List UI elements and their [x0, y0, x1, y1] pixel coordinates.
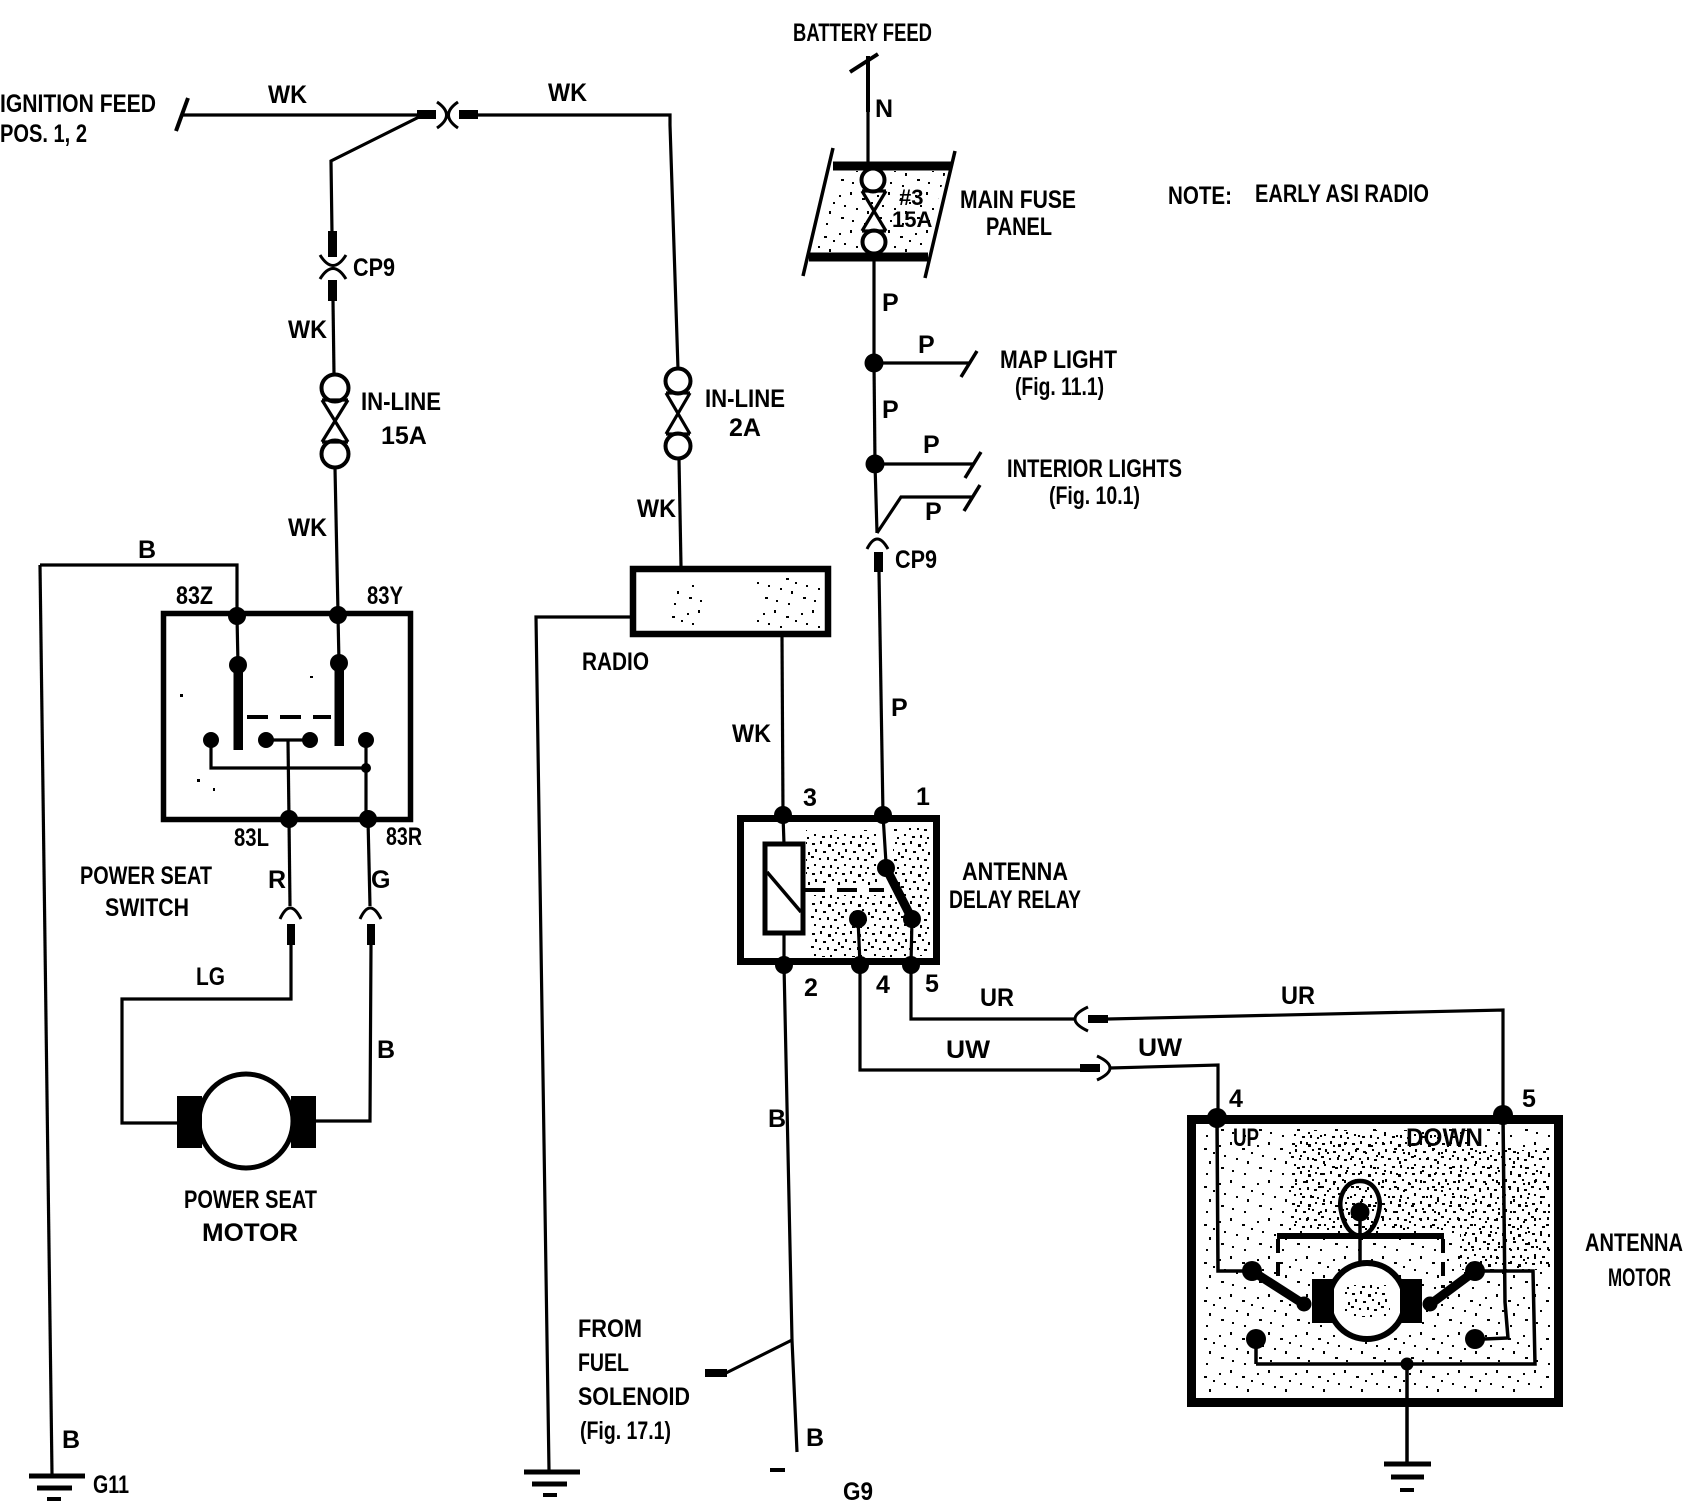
label FROM FUEL SOLENOID (Fig. 17.1): [578, 1315, 690, 1445]
wire right arm to common rail: [1256, 1271, 1535, 1364]
svg-text:B: B: [377, 1036, 395, 1064]
svg-text:MAP LIGHT: MAP LIGHT: [1000, 346, 1117, 374]
wire UW connector to antenna motor pin 4: [1110, 1065, 1218, 1115]
svg-text:83R: 83R: [386, 823, 422, 851]
svg-text:UR: UR: [1281, 982, 1315, 1010]
wire contact bar to terminal 83L: [288, 741, 289, 819]
relay switch arm: [849, 815, 921, 964]
switch contact row (4 contacts): [203, 732, 374, 748]
svg-text:4: 4: [1229, 1085, 1243, 1113]
node motor pin 4: [1207, 1108, 1227, 1128]
svg-text:UP: UP: [1233, 1124, 1259, 1152]
node up lower contact: [1246, 1329, 1266, 1364]
node terminal 83R: [359, 810, 422, 851]
radio box: [633, 569, 828, 634]
fuse #3 15A inside panel: [862, 169, 887, 254]
svg-text:P: P: [923, 431, 940, 459]
label MAIN FUSE PANEL: [960, 186, 1076, 241]
label UW (left): [946, 1036, 990, 1064]
thermal teardrop with contact: [1340, 1181, 1379, 1263]
connector UW (bar-arc): [1080, 1056, 1110, 1080]
label POWER SEAT SWITCH: [80, 862, 212, 922]
label CP9: [353, 254, 395, 282]
relay dashed link: [805, 888, 884, 892]
svg-text:ANTENNA: ANTENNA: [1585, 1229, 1683, 1257]
label ANTENNA MOTOR: [1585, 1229, 1683, 1292]
svg-text:G9: G9: [843, 1478, 873, 1504]
label UR (right): [1281, 982, 1315, 1010]
ground G11: [29, 1471, 129, 1499]
antenna delay relay box: [741, 819, 937, 962]
wire diagonal connector to CP9 branch: [331, 117, 419, 233]
svg-text:IN-LINE: IN-LINE: [361, 388, 441, 416]
svg-text:PANEL: PANEL: [986, 213, 1052, 241]
label G: [371, 866, 390, 894]
svg-text:POWER SEAT: POWER SEAT: [184, 1186, 317, 1214]
svg-text:EARLY ASI RADIO: EARLY ASI RADIO: [1255, 180, 1429, 208]
connector CP9 (main P wire, arc-pin): [867, 539, 888, 572]
label 5 (motor pin): [1522, 1085, 1536, 1113]
antenna motor box: [1192, 1120, 1559, 1403]
label P (interior lights branch): [923, 431, 940, 459]
switch blade right (83Y): [330, 615, 348, 746]
svg-text:(Fig. 17.1): (Fig. 17.1): [580, 1417, 671, 1445]
svg-text:WK: WK: [268, 81, 307, 109]
label WK (right top wire): [548, 79, 587, 107]
label B (bottom left): [62, 1426, 80, 1454]
node relay pin 4: [851, 956, 890, 999]
wire branch to fuel solenoid: [705, 1340, 792, 1377]
label UW (right): [1138, 1034, 1182, 1062]
node BATTERY FEED label: [793, 19, 932, 47]
label CP9 (main): [895, 546, 937, 574]
svg-text:2: 2: [804, 974, 818, 1002]
label WK (above radio): [637, 495, 676, 523]
label WK (above switch): [288, 514, 327, 542]
svg-text:B: B: [138, 536, 156, 564]
svg-text:FUEL: FUEL: [578, 1349, 629, 1377]
label B (top left): [138, 536, 156, 564]
svg-text:P: P: [882, 396, 899, 424]
wire motor pin 4 to up contact: [1217, 1118, 1247, 1271]
label INTERIOR LIGHTS (Fig. 10.1): [1007, 455, 1182, 510]
svg-text:15A: 15A: [381, 422, 427, 450]
wire LG to power seat motor: [122, 945, 291, 1123]
label NOTE: EARLY ASI RADIO: [1168, 180, 1429, 210]
svg-text:WK: WK: [637, 495, 676, 523]
node relay pin 2: [775, 956, 818, 1002]
scan speckles in power seat switch: [180, 676, 313, 791]
node terminal 83Y: [329, 582, 403, 624]
wire WK 2A fuse to radio: [679, 459, 681, 566]
svg-text:WK: WK: [548, 79, 587, 107]
label ANTENNA DELAY RELAY: [949, 858, 1081, 914]
svg-text:MOTOR: MOTOR: [1608, 1264, 1671, 1292]
svg-text:G: G: [371, 866, 390, 894]
switch dashed coupling bar: [247, 715, 331, 719]
wire B to power seat motor: [314, 945, 371, 1121]
ground (antenna motor): [1384, 1464, 1431, 1490]
svg-text:POS. 1, 2: POS. 1, 2: [0, 120, 87, 148]
svg-text:MOTOR: MOTOR: [202, 1219, 298, 1247]
svg-text:SWITCH: SWITCH: [105, 894, 189, 922]
label LG: [196, 963, 225, 991]
label B (right of motor): [377, 1036, 395, 1064]
wire P down to CP9: [875, 464, 877, 533]
bracket with dashed sides: [1277, 1236, 1444, 1288]
antenna motor armature: [1312, 1263, 1430, 1339]
label N: [875, 95, 893, 123]
svg-text:(Fig. 10.1): (Fig. 10.1): [1049, 482, 1140, 510]
connector R (arc-pin): [280, 908, 301, 945]
switch blade left (83Z): [229, 616, 247, 750]
node terminal 83Z: [176, 582, 246, 625]
svg-text:P: P: [918, 331, 935, 359]
node junction interior lights: [866, 455, 885, 474]
label P (between junctions): [882, 396, 899, 424]
wire B left feed to terminal 83Z: [40, 565, 237, 613]
svg-text:CP9: CP9: [895, 546, 937, 574]
wire 83L to connector R: [289, 819, 290, 906]
svg-text:IGNITION FEED: IGNITION FEED: [0, 90, 156, 118]
svg-text:RADIO: RADIO: [582, 648, 649, 676]
wire UW relay pin 4 to connector: [860, 965, 1080, 1070]
label UR (left): [980, 984, 1014, 1012]
label IN-LINE 2A: [705, 385, 785, 442]
node relay pin 5: [902, 956, 939, 998]
wire UR connector to antenna motor pin 5: [1108, 1010, 1503, 1115]
svg-text:B: B: [806, 1424, 824, 1452]
wire P CP9 to relay pin 1: [879, 572, 883, 815]
wire UR relay pin 5 to connector: [911, 965, 1076, 1019]
svg-text:UR: UR: [980, 984, 1014, 1012]
node motor pin 5: [1493, 1105, 1513, 1125]
svg-text:P: P: [882, 289, 899, 317]
wire P to interior lights junction: [874, 363, 875, 464]
wire P fuse panel to map light junction: [872, 261, 875, 363]
label #3 15A: [892, 185, 932, 232]
svg-text:B: B: [768, 1105, 786, 1133]
wire B radio to ground (long left drop): [536, 617, 633, 1470]
svg-text:POWER SEAT: POWER SEAT: [80, 862, 212, 890]
connector CP9 (left branch): [320, 231, 346, 301]
node IGNITION FEED POS. 1, 2 label: [0, 90, 156, 148]
wire N battery feed to fuse panel: [866, 70, 869, 163]
connector UR (arc-bar): [1075, 1007, 1108, 1031]
svg-text:WK: WK: [732, 720, 771, 748]
label P (map light branch): [918, 331, 935, 359]
label P (below fuse panel): [882, 289, 899, 317]
node ground junction: [1401, 1358, 1414, 1371]
wire B left vertical to ground G11: [40, 565, 52, 1474]
main fuse panel (parallelogram): [803, 148, 955, 278]
svg-text:FROM: FROM: [578, 1315, 642, 1343]
svg-text:WK: WK: [288, 514, 327, 542]
wire WK ignition feed to connector: [182, 113, 417, 116]
label DOWN: [1406, 1124, 1483, 1152]
fuse IN-LINE 2A: [666, 369, 691, 459]
wire motor pin 5 to down contact: [1484, 1115, 1508, 1339]
battery feed terminal slash: [850, 54, 878, 112]
node relay pin 3: [774, 784, 817, 824]
label B (relay pin 2 wire): [768, 1105, 786, 1133]
ignition feed terminal slash: [176, 98, 188, 131]
svg-text:P: P: [891, 694, 908, 722]
wire left contact to right contact crossover: [211, 740, 371, 819]
svg-text:MAIN FUSE: MAIN FUSE: [960, 186, 1076, 214]
power seat switch box: [164, 614, 411, 820]
relay coil: [765, 815, 803, 965]
wire WK CP9 to in-line 15A fuse: [333, 301, 334, 374]
label R: [268, 866, 286, 894]
svg-text:P: P: [925, 498, 942, 526]
wire 83R to connector G: [368, 819, 370, 906]
wire B relay pin 2 down: [784, 965, 797, 1452]
svg-text:INTERIOR LIGHTS: INTERIOR LIGHTS: [1007, 455, 1182, 483]
node down lower contact: [1465, 1329, 1485, 1349]
svg-text:UW: UW: [1138, 1034, 1182, 1062]
svg-text:N: N: [875, 95, 893, 123]
svg-text:NOTE:: NOTE:: [1168, 182, 1232, 210]
node terminal 83L: [234, 810, 298, 852]
label POWER SEAT MOTOR: [184, 1186, 317, 1247]
svg-text:83Z: 83Z: [176, 582, 213, 610]
label RADIO: [582, 648, 649, 676]
svg-text:R: R: [268, 866, 286, 894]
label IN-LINE 15A: [361, 388, 441, 450]
node relay pin 1: [874, 783, 930, 824]
wire branch third (diagonal): [877, 485, 980, 533]
svg-text:SOLENOID: SOLENOID: [578, 1383, 690, 1411]
label WK (above 15A fuse): [288, 316, 327, 344]
connector inline WK (bar-arcs-bar): [417, 102, 478, 128]
wire WK connector to in-line 2A fuse: [478, 115, 678, 369]
svg-text:UW: UW: [946, 1036, 990, 1064]
svg-text:15A: 15A: [892, 207, 932, 232]
label UP: [1233, 1124, 1259, 1152]
label B (above G9): [806, 1424, 824, 1452]
svg-text:1: 1: [916, 783, 930, 811]
wire WK radio to relay pin 3: [782, 637, 783, 815]
wire branch to interior lights: [875, 452, 981, 478]
svg-text:4: 4: [876, 971, 890, 999]
svg-text:WK: WK: [288, 316, 327, 344]
svg-text:LG: LG: [196, 963, 225, 991]
svg-text:(Fig. 11.1): (Fig. 11.1): [1015, 373, 1104, 401]
connector G (arc-pin): [360, 908, 381, 945]
fuse IN-LINE 15A: [322, 375, 349, 468]
svg-text:83Y: 83Y: [367, 582, 403, 610]
label P (third branch): [925, 498, 942, 526]
label WK (radio to relay): [732, 720, 771, 748]
motor POWER SEAT MOTOR: [177, 1074, 316, 1168]
svg-text:83L: 83L: [234, 824, 269, 852]
ground (radio B wire): [524, 1472, 580, 1495]
wire WK fuse to terminal 83Y: [335, 468, 338, 613]
svg-text:IN-LINE: IN-LINE: [705, 385, 785, 413]
label P (above relay): [891, 694, 908, 722]
wire branch to map light: [874, 351, 977, 377]
label 4 (motor pin): [1229, 1085, 1243, 1113]
svg-text:CP9: CP9: [353, 254, 395, 282]
motor switch arm left: [1242, 1261, 1312, 1312]
svg-text:2A: 2A: [729, 414, 761, 442]
label WK (ignition wire): [268, 81, 307, 109]
svg-text:5: 5: [1522, 1085, 1536, 1113]
svg-text:3: 3: [803, 784, 817, 812]
svg-text:B: B: [62, 1426, 80, 1454]
svg-text:G11: G11: [93, 1471, 129, 1499]
motor switch arm right: [1423, 1261, 1486, 1312]
svg-text:DOWN: DOWN: [1406, 1124, 1483, 1152]
svg-text:BATTERY FEED: BATTERY FEED: [793, 19, 932, 47]
svg-text:5: 5: [925, 970, 939, 998]
svg-text:DELAY RELAY: DELAY RELAY: [949, 886, 1081, 914]
wire ground stem: [1405, 1364, 1409, 1462]
ground G9: [770, 1470, 873, 1504]
svg-text:ANTENNA: ANTENNA: [962, 858, 1068, 886]
node junction map light: [865, 354, 884, 373]
label MAP LIGHT (Fig. 11.1): [1000, 346, 1117, 401]
